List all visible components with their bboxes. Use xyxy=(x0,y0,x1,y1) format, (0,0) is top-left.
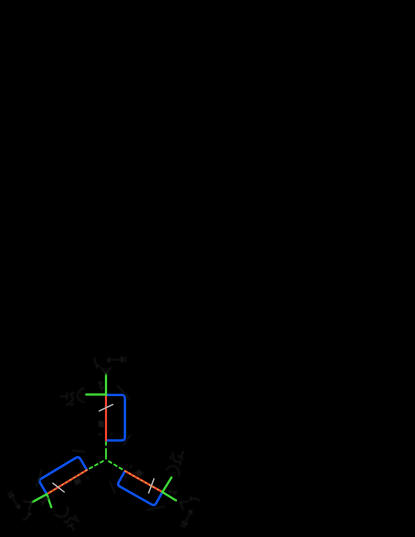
green bond lr terminal continuation xyxy=(162,492,176,500)
green bond ll terminal perpendicular xyxy=(47,494,52,507)
green bond top terminal continuation xyxy=(105,374,107,395)
cut tick top xyxy=(99,405,113,412)
green bond lr terminal perpendicular xyxy=(162,477,171,492)
highlight box top xyxy=(106,395,125,441)
green bond top terminal perpendicular xyxy=(86,393,106,395)
dim faded fragment marks rot240 xyxy=(5,446,116,537)
green dash specks over red bond lr xyxy=(125,471,162,492)
green bond ll terminal continuation xyxy=(32,494,47,502)
red bond top xyxy=(105,395,107,441)
highlight box ll xyxy=(40,457,87,494)
dashed bond ll xyxy=(101,461,104,462)
cut tick ll xyxy=(53,483,64,492)
dashed bond top xyxy=(105,449,107,459)
dim faded fragment marks rot120 xyxy=(107,427,218,531)
red bond lr xyxy=(125,471,162,492)
cut tick lr xyxy=(149,479,154,493)
dim faded fragment marks rot0 xyxy=(61,357,131,445)
dashed bond lr xyxy=(109,461,112,463)
red bond ll xyxy=(47,470,87,494)
green dash specks over red bond ll xyxy=(47,470,87,494)
highlight box lr xyxy=(118,471,162,505)
